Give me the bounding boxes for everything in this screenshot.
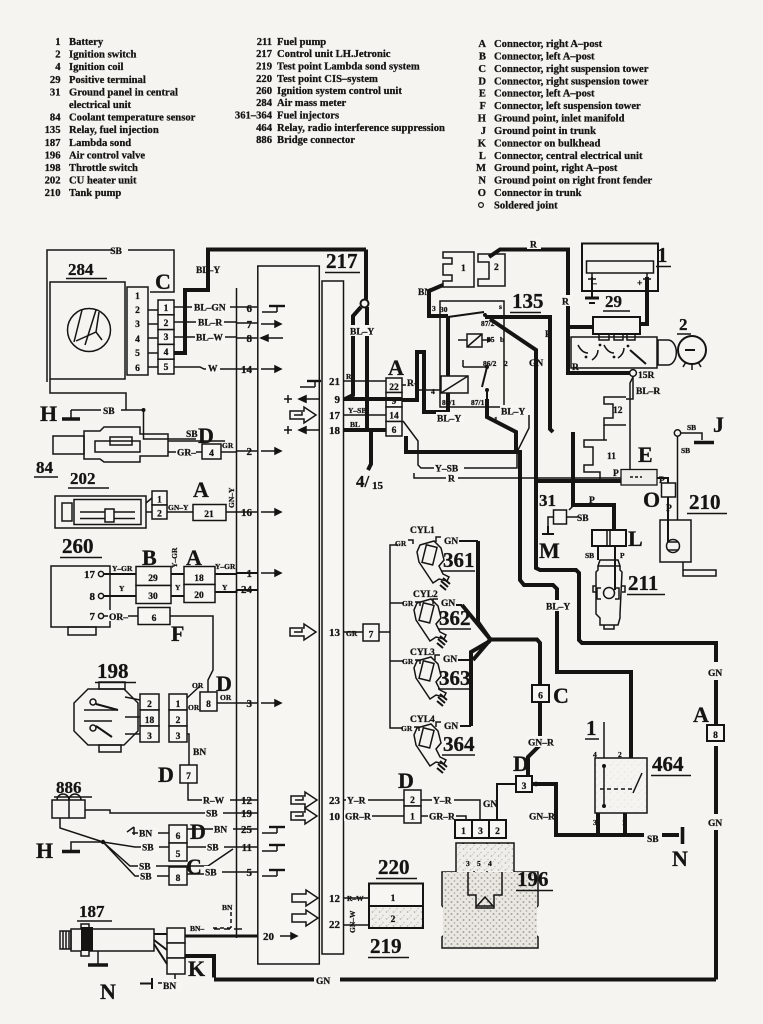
svg-text:210: 210 <box>689 490 721 514</box>
svg-text:GR–: GR– <box>177 449 196 459</box>
hollow arrow symbols pins 17 13 23 10 12 22 <box>290 407 318 926</box>
connector box 6 row OR <box>138 608 170 625</box>
pin numbers right column U217 <box>329 376 341 931</box>
svg-text:Air mass meter: Air mass meter <box>277 98 347 109</box>
svg-text:Connector, left suspension tow: Connector, left suspension tower <box>494 101 641 112</box>
relay resistor box 85 <box>467 334 482 347</box>
svg-text:16: 16 <box>241 507 253 519</box>
svg-text:2: 2 <box>504 359 508 368</box>
svg-text:GR: GR <box>346 629 358 638</box>
svg-text:364: 364 <box>443 732 475 756</box>
thick wire from A6 down right to 464 via BL-Y <box>406 436 631 758</box>
svg-text:GN–Y: GN–Y <box>227 487 236 508</box>
pin strip 1-6 of 284 <box>127 287 148 375</box>
thick GN wire continues down to right rail <box>536 481 716 662</box>
CU heater unit 202 <box>55 469 237 528</box>
control unit U217 stipple lower interior <box>259 640 318 962</box>
svg-text:886: 886 <box>256 135 272 146</box>
svg-text:15: 15 <box>372 480 384 492</box>
svg-text:1: 1 <box>164 304 169 314</box>
svg-text:2: 2 <box>176 716 181 726</box>
svg-text:19: 19 <box>241 808 253 820</box>
thick wire 86/1 down to BL-Y row <box>402 352 448 412</box>
svg-text:5: 5 <box>247 867 253 879</box>
svg-text:464: 464 <box>652 752 684 776</box>
svg-text:CU heater unit: CU heater unit <box>69 176 137 187</box>
svg-text:1: 1 <box>461 264 466 274</box>
svg-text:2: 2 <box>495 827 500 837</box>
svg-text:SB: SB <box>206 810 218 820</box>
svg-text:284: 284 <box>68 260 94 279</box>
198 pin boxes column 1 <box>140 694 159 710</box>
svg-text:BN: BN <box>418 288 431 298</box>
pin stub wires crossing left strip <box>237 307 258 872</box>
svg-text:29: 29 <box>148 574 158 584</box>
svg-text:2: 2 <box>618 750 622 759</box>
svg-text:1: 1 <box>461 827 466 837</box>
svg-text:17: 17 <box>329 410 341 422</box>
terminal 15R <box>630 370 637 377</box>
svg-text:3: 3 <box>247 698 253 710</box>
thick GN wire branch to connector E and onward to 210 <box>536 442 676 520</box>
svg-text:BL–Y: BL–Y <box>546 603 570 613</box>
svg-text:SB: SB <box>577 514 589 524</box>
svg-text:H: H <box>478 114 487 125</box>
svg-text:GR: GR <box>222 441 234 450</box>
thick BL-Y vertical pair with terminal circle <box>344 250 384 493</box>
svg-text:196: 196 <box>517 867 549 891</box>
svg-text:Soldered joint: Soldered joint <box>494 201 558 212</box>
svg-text:84: 84 <box>36 458 54 477</box>
relay coil box 86/1 <box>441 376 468 393</box>
op-amp U217 control unit narrow right rectangle <box>322 281 344 954</box>
wire SB from 886 to pin 19 <box>85 810 237 813</box>
svg-text:SB: SB <box>205 869 217 879</box>
svg-text:GN: GN <box>708 819 722 829</box>
wires 187 to K <box>154 934 167 964</box>
ignition system control unit 260 <box>51 534 237 692</box>
thick wire 87/2 right to P vertical <box>485 317 553 432</box>
svg-text:187: 187 <box>45 138 62 149</box>
lambda sond 187 <box>60 902 258 1004</box>
wire GR from pin 13 to box 7 and bus <box>344 624 387 641</box>
svg-text:1: 1 <box>391 894 396 904</box>
svg-text:K: K <box>188 956 205 981</box>
connector boxes 1 2 of 202 <box>152 491 167 505</box>
svg-text:5: 5 <box>164 363 169 373</box>
svg-text:3: 3 <box>522 782 527 792</box>
svg-text:Ignition coil: Ignition coil <box>69 62 124 73</box>
svg-text:6: 6 <box>135 364 140 374</box>
connector A box 21 <box>193 505 226 521</box>
thin wire R from 15R down and left <box>414 377 633 478</box>
svg-text:284: 284 <box>256 98 273 109</box>
wire GN from D3 left down to 196 connector <box>483 784 516 820</box>
svg-text:GN: GN <box>444 722 458 732</box>
svg-text:3: 3 <box>164 333 169 343</box>
svg-text:6: 6 <box>247 303 253 315</box>
svg-text:Fuel injectors: Fuel injectors <box>277 111 339 122</box>
svg-text:9: 9 <box>335 394 341 406</box>
thick diag 87/2 to GN vertical <box>490 319 536 481</box>
tank pump 210 <box>660 490 727 576</box>
svg-text:Ground panel in central: Ground panel in central <box>69 87 178 98</box>
svg-text:361: 361 <box>443 548 475 572</box>
svg-text:Connector, left A–post: Connector, left A–post <box>494 89 595 100</box>
svg-text:4: 4 <box>55 62 61 73</box>
svg-text:Y: Y <box>175 583 181 592</box>
wire GN-R from C6 to D3 <box>527 702 555 776</box>
wire SB row to box 5 pin 11 <box>103 841 237 861</box>
connector brackets ignition feed top <box>418 238 630 373</box>
svg-text:P: P <box>613 469 619 479</box>
wire from 886 down to junction dot <box>60 818 103 842</box>
thick wire BL-Y top left into C4 <box>174 250 366 354</box>
thick diag BL-Y from 87/1 to junction <box>487 399 516 452</box>
wires 198 body to boxes <box>125 697 140 734</box>
svg-text:8: 8 <box>90 591 96 603</box>
svg-text:2: 2 <box>164 319 169 329</box>
wire W from C5 to pin 14 <box>174 362 237 375</box>
key symbol circle <box>678 336 706 364</box>
svg-text:2: 2 <box>679 315 688 334</box>
svg-text:R–W: R–W <box>203 797 225 807</box>
svg-text:7: 7 <box>247 319 253 331</box>
svg-text:84: 84 <box>50 113 61 124</box>
svg-text:196: 196 <box>45 150 61 161</box>
svg-text:202: 202 <box>70 469 96 488</box>
svg-text:SB: SB <box>110 247 122 257</box>
svg-text:5: 5 <box>176 850 181 860</box>
connector K boxes <box>167 928 185 943</box>
svg-text:Connector, central electrical: Connector, central electrical unit <box>494 151 643 162</box>
svg-text:Ground point, inlet manifold: Ground point, inlet manifold <box>494 114 625 125</box>
legend column 2 <box>235 37 445 146</box>
svg-text:31: 31 <box>539 491 556 510</box>
connector L <box>585 526 643 560</box>
wire R-W pin12 to 220 box1 <box>344 897 370 899</box>
svg-text:M: M <box>476 163 486 174</box>
svg-text:Connector on bulkhead: Connector on bulkhead <box>494 138 600 149</box>
connector C box 6 on GN feed <box>532 683 569 708</box>
svg-text:BL–Y: BL–Y <box>501 408 525 418</box>
198 pin boxes column 2 <box>169 694 187 710</box>
svg-text:7: 7 <box>90 611 96 623</box>
svg-text:Control unit LH.Jetronic: Control unit LH.Jetronic <box>277 49 391 60</box>
svg-text:R: R <box>346 372 352 381</box>
svg-text:1: 1 <box>135 292 140 302</box>
svg-text:2: 2 <box>157 510 162 520</box>
svg-text:211: 211 <box>628 571 658 595</box>
svg-text:BL–W: BL–W <box>196 334 223 344</box>
svg-text:Ignition switch: Ignition switch <box>69 50 137 61</box>
wire Y row thick through B30 A20 to pin 24 <box>104 590 237 596</box>
svg-text:A: A <box>193 477 209 502</box>
soldered joint and ground J <box>674 412 724 520</box>
ground point H upper with SB wire from 284 and 84 <box>40 379 196 439</box>
svg-text:Connector, left A–post: Connector, left A–post <box>494 51 595 62</box>
svg-text:GN: GN <box>316 977 330 987</box>
relay radio interference suppression 464 <box>585 716 691 835</box>
arrow glyphs inside U217 pointing right <box>261 321 297 939</box>
svg-text:3: 3 <box>135 320 140 330</box>
wire OR from F6 down to D8 <box>170 616 213 692</box>
svg-text:P: P <box>620 551 625 560</box>
fuel injector 364 cylinder 4 <box>401 715 475 773</box>
wire Y-GR row thick through B29 A18 to pin 1 <box>104 573 237 575</box>
injector GR bus bracket <box>386 545 404 728</box>
svg-text:220: 220 <box>378 855 410 879</box>
svg-text:Ground point on right front fe: Ground point on right front fender <box>494 176 653 187</box>
svg-text:B: B <box>479 51 486 62</box>
test point boxes 220 and 219 <box>344 855 424 958</box>
svg-text:D: D <box>158 762 174 787</box>
wires 284 pins to connector C <box>148 310 158 367</box>
svg-text:21: 21 <box>204 510 214 520</box>
thick GN wire from K down to bottom rail <box>185 956 214 978</box>
svg-text:BL–GN: BL–GN <box>194 304 226 314</box>
svg-text:3: 3 <box>176 732 181 742</box>
thin wire R from A22 to relay coil pin 4 <box>402 385 441 390</box>
svg-text:Y–SB: Y–SB <box>348 406 366 415</box>
svg-text:13: 13 <box>329 627 341 639</box>
ground panel 31 and ground M <box>539 491 589 563</box>
svg-text:C: C <box>478 64 486 75</box>
svg-text:18: 18 <box>329 425 341 437</box>
svg-text:A: A <box>693 702 709 727</box>
wire GN-Y to box A21 <box>167 511 193 513</box>
right GN rail with connector A box 8 <box>693 669 724 980</box>
svg-text:BN–: BN– <box>190 924 204 933</box>
464 pin 3 and 1 wires down <box>598 813 625 835</box>
wire R-W from D7 to pin 12 <box>188 783 237 800</box>
svg-text:R: R <box>562 298 569 308</box>
ground-step symbols inside U217 pins 6 25 11 5 <box>262 306 321 876</box>
wire SB row to box 8 pin 5 <box>103 842 237 885</box>
svg-text:1: 1 <box>657 243 668 267</box>
wire OR row to box F6 <box>104 615 138 617</box>
svg-text:5: 5 <box>135 349 140 359</box>
svg-text:1: 1 <box>157 496 162 506</box>
positive terminal 29 <box>568 292 640 340</box>
svg-text:29: 29 <box>605 292 622 311</box>
svg-text:H: H <box>36 838 53 863</box>
svg-text:GN–W: GN–W <box>348 910 357 933</box>
svg-text:GN: GN <box>529 359 543 369</box>
svg-text:SB: SB <box>207 844 219 854</box>
svg-text:Y: Y <box>222 583 228 592</box>
fuel injector 362 cylinder 2 <box>402 590 471 648</box>
svg-text:D: D <box>478 76 486 87</box>
legend column 1 <box>45 37 196 199</box>
svg-text:C: C <box>553 683 569 708</box>
wire GR lower pin 84 to box D4 <box>168 451 202 453</box>
svg-text:Y–R: Y–R <box>347 797 366 807</box>
svg-text:6: 6 <box>152 614 157 624</box>
svg-text:Battery: Battery <box>69 37 104 48</box>
svg-text:Y–R: Y–R <box>433 797 452 807</box>
svg-text:220: 220 <box>256 74 272 85</box>
svg-text:GN: GN <box>444 537 458 547</box>
svg-text:F: F <box>480 101 486 112</box>
svg-text:Connector, right suspension to: Connector, right suspension tower <box>494 76 649 87</box>
svg-text:20: 20 <box>194 591 204 601</box>
svg-text:D: D <box>190 819 206 844</box>
bracket 11 connector E feed <box>584 440 616 481</box>
svg-text:4: 4 <box>431 387 435 396</box>
fuel injector 361 cylinder 1 <box>395 526 478 590</box>
svg-text:GN–Y: GN–Y <box>168 503 189 512</box>
svg-text:187: 187 <box>79 902 105 921</box>
wire BN hook row to box D6 pin 25 <box>127 819 237 844</box>
svg-text:O: O <box>478 188 486 199</box>
svg-text:Lambda sond: Lambda sond <box>69 138 131 149</box>
svg-text:11: 11 <box>607 452 616 462</box>
svg-text:L: L <box>628 526 643 551</box>
wire GN-R from D3 dot to 464 pin area and ground N <box>528 784 688 871</box>
bottom GN rail left segment <box>214 978 314 982</box>
svg-text:198: 198 <box>45 163 61 174</box>
connector D box 4 <box>202 444 221 459</box>
svg-text:202: 202 <box>45 176 61 187</box>
connector A boxes 18 20 <box>184 567 215 585</box>
svg-text:P: P <box>545 330 551 340</box>
svg-text:Fuel pump: Fuel pump <box>277 37 326 48</box>
svg-text:E: E <box>479 89 486 100</box>
svg-text:464: 464 <box>256 123 273 134</box>
svg-text:+: + <box>637 279 642 289</box>
thick wire stubs pins 1 and 24 <box>237 572 258 574</box>
svg-text:135: 135 <box>512 289 544 313</box>
svg-text:1: 1 <box>176 700 181 710</box>
svg-text:N: N <box>478 176 486 187</box>
svg-text:31: 31 <box>50 87 61 98</box>
op-amp U217 control unit big rectangle <box>258 266 320 964</box>
air control valve 196 body <box>442 843 553 948</box>
svg-text:GN–R: GN–R <box>529 813 555 823</box>
svg-text:30: 30 <box>440 305 448 314</box>
svg-text:b: b <box>500 335 504 344</box>
wire from E through connector O down to 210 <box>657 478 668 520</box>
legend column 3 <box>476 39 653 212</box>
svg-text:Tank pump: Tank pump <box>69 188 121 199</box>
svg-text:R–W: R–W <box>347 894 364 903</box>
air mass meter 284 outer box <box>47 247 174 382</box>
svg-text:211: 211 <box>257 37 272 48</box>
svg-text:Connector in trunk: Connector in trunk <box>494 188 582 199</box>
svg-text:SB: SB <box>647 835 659 845</box>
connector C boxes 1-5 <box>158 300 174 374</box>
svg-text:2: 2 <box>55 50 60 61</box>
svg-text:11: 11 <box>242 842 252 854</box>
thick BN wire from K to pin 20 <box>185 935 258 938</box>
svg-text:N: N <box>100 979 116 1004</box>
bottom GN rail right segment <box>340 978 716 982</box>
svg-text:3: 3 <box>147 732 152 742</box>
wire from K bottom to ground N <box>158 974 175 983</box>
thick GN injector harness to node <box>462 541 540 726</box>
svg-text:4: 4 <box>135 335 140 345</box>
svg-text:Connector, right A–post: Connector, right A–post <box>494 39 603 50</box>
svg-text:30: 30 <box>148 592 158 602</box>
svg-text:198: 198 <box>97 659 129 683</box>
svg-text:17: 17 <box>84 569 96 581</box>
svg-text:SB: SB <box>103 407 115 417</box>
svg-text:Test point Lambda sond system: Test point Lambda sond system <box>277 62 420 73</box>
wire SB row C joining pin 11 <box>103 842 233 879</box>
svg-text:A: A <box>478 39 486 50</box>
svg-text:SB: SB <box>681 446 690 455</box>
svg-text:6: 6 <box>392 426 397 436</box>
pin numbers left column U217 <box>241 303 275 943</box>
wire SB from joint down to 210 <box>677 437 679 521</box>
svg-text:12: 12 <box>613 406 623 416</box>
svg-text:Relay, fuel injection: Relay, fuel injection <box>69 125 159 136</box>
svg-text:s: s <box>499 302 502 311</box>
plus-arrow symbols pins 9 and 18 <box>284 395 320 434</box>
svg-text:260: 260 <box>62 534 94 558</box>
wire BL-GN from C1 to pin 6 <box>174 301 237 314</box>
svg-text:P: P <box>666 504 672 514</box>
svg-text:217: 217 <box>326 249 358 273</box>
relay fuel injection 135 <box>402 289 553 481</box>
svg-text:219: 219 <box>370 934 402 958</box>
wire OR from D8 to pin 3 <box>217 702 237 704</box>
svg-text:363: 363 <box>439 666 471 690</box>
svg-text:OR: OR <box>220 693 232 702</box>
svg-text:135: 135 <box>45 125 61 136</box>
svg-text:GN: GN <box>708 669 722 679</box>
svg-text:CYL1: CYL1 <box>410 526 435 536</box>
svg-text:SB: SB <box>585 551 594 560</box>
svg-text:GR–R: GR–R <box>429 813 455 823</box>
thick R wire top right <box>489 250 630 374</box>
svg-text:3: 3 <box>432 304 436 313</box>
svg-text:23: 23 <box>329 795 341 807</box>
svg-text:7: 7 <box>369 631 374 641</box>
svg-text:SB: SB <box>186 430 198 440</box>
connector A column boxes 22 9 14 6 <box>386 355 404 436</box>
dashed BN wire up to pin 20 <box>210 903 233 928</box>
svg-text:3: 3 <box>466 859 470 868</box>
svg-text:C: C <box>155 269 171 294</box>
coolant temperature sensor 84 <box>34 423 237 477</box>
svg-text:2: 2 <box>410 796 415 806</box>
wire SB upper pin of 84 <box>168 440 225 442</box>
svg-text:Ignition system control unit: Ignition system control unit <box>277 86 402 97</box>
svg-text:H: H <box>40 401 57 426</box>
wire GN-W pin22 to 220 box2 <box>344 924 370 926</box>
svg-text:SB: SB <box>140 873 152 883</box>
svg-text:14: 14 <box>241 364 253 376</box>
battery 1 <box>582 243 671 324</box>
thick wire pin 9 to A9 <box>344 397 403 401</box>
connector D boxes 2 and 1 rows 23 10 <box>344 768 481 823</box>
svg-text:O: O <box>643 487 660 512</box>
svg-text:SB: SB <box>687 423 696 432</box>
svg-text:1: 1 <box>55 37 60 48</box>
connector D box 3 <box>513 751 538 792</box>
svg-text:87/1: 87/1 <box>471 398 485 407</box>
svg-text:GN: GN <box>443 655 457 665</box>
svg-text:BL: BL <box>350 420 360 429</box>
svg-text:Y: Y <box>119 584 125 593</box>
svg-text:BL–Y: BL–Y <box>196 266 220 276</box>
wire Y-SB pin 17 to A14 <box>344 406 387 415</box>
svg-text:25: 25 <box>241 824 253 836</box>
relay switch arm 30-87/2 <box>448 312 484 317</box>
svg-text:L: L <box>479 151 486 162</box>
